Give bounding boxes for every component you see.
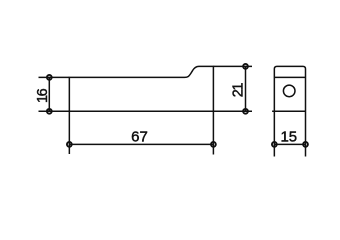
svg-text:16: 16 — [35, 88, 51, 103]
svg-text:67: 67 — [131, 129, 148, 146]
svg-text:15: 15 — [280, 129, 297, 146]
svg-text:21: 21 — [231, 83, 247, 98]
